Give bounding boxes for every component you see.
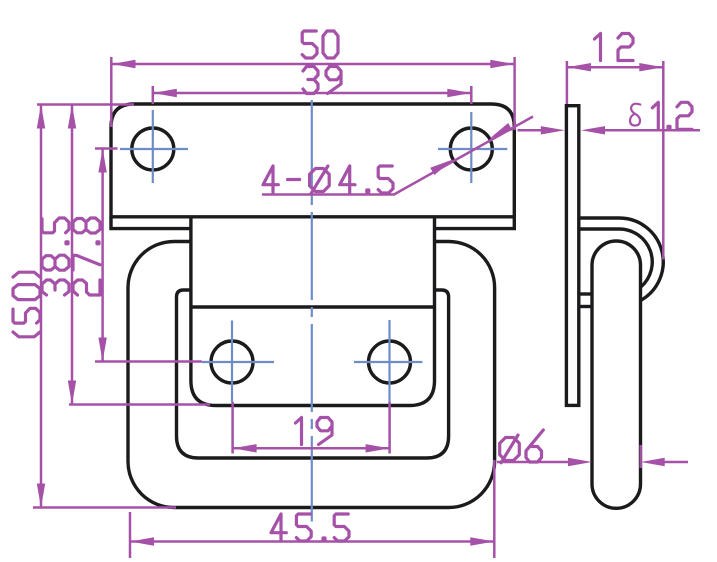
- dimension 19 arrows: [233, 444, 257, 452]
- wire diameter 6 text: [500, 430, 544, 463]
- mounting hole top-left: [132, 128, 174, 170]
- rivet hole bottom-right: [369, 341, 411, 383]
- left dimensions top extension line: [37, 103, 134, 106]
- dimension 19 line: [233, 402, 390, 454]
- wire diameter 6 lines: [497, 445, 688, 468]
- dimension 39 line: [153, 86, 472, 104]
- handle loop outer outline: [128, 242, 495, 508]
- dimension 45.5 text: [271, 514, 349, 541]
- center mark hole bottom-left: [202, 321, 274, 403]
- side view loop wire capsule: [592, 241, 641, 508]
- center mark hole top-right: [438, 112, 507, 183]
- dimension 38.5 line: [69, 105, 210, 405]
- thickness delta 1.2 text: [630, 102, 692, 129]
- dimension 12 text: [595, 34, 634, 61]
- dimension 12 line: [567, 61, 663, 260]
- dimension 27.8 text: [73, 218, 100, 295]
- dimension 12 arrows: [567, 63, 591, 71]
- handle loop inner outline: [177, 290, 449, 458]
- dimension (50) text: [13, 272, 40, 337]
- hinge leaf and rivet plate outline: [191, 217, 435, 406]
- dimension 50 text: [302, 31, 338, 58]
- side view mounting plate edge: [566, 106, 578, 406]
- wire diameter 6 arrows: [568, 458, 592, 466]
- hole callout underline and leader: [262, 117, 533, 195]
- dimension 38.5 arrows: [68, 105, 76, 129]
- hole callout 4-dia4.5 text: [263, 166, 393, 194]
- dimension 19 text: [296, 418, 333, 445]
- rivet hole bottom-left: [211, 341, 253, 383]
- dimension 50 arrows: [112, 60, 136, 68]
- dimension 50 line: [111, 57, 514, 130]
- side view strap inner edge: [580, 229, 652, 287]
- mounting hole top-right: [450, 128, 492, 170]
- center mark hole bottom-right: [354, 320, 422, 402]
- dimension 38.5 text: [42, 218, 69, 295]
- dimension 45.5 line: [130, 460, 494, 558]
- dimension 39 arrows: [153, 89, 177, 97]
- dimension 27.8 line: [95, 149, 202, 362]
- dimension 45.5 arrows: [130, 537, 154, 545]
- top mounting plate outline: [111, 104, 514, 217]
- side view leaf edge bottom line: [580, 305, 592, 308]
- side view leaf edge top line: [580, 292, 592, 295]
- mounting plate right lip: [435, 217, 515, 229]
- dimension 39 text: [303, 67, 341, 94]
- center mark hole top-left: [120, 110, 188, 183]
- side view strap outer edge: [580, 218, 663, 300]
- dimension (50) arrows: [37, 105, 45, 129]
- fold line of rivet plate: [191, 305, 435, 308]
- vertical center line: [311, 100, 313, 522]
- thickness delta 1.2 lines: [518, 129, 701, 132]
- mounting plate left lip: [111, 217, 191, 229]
- thickness delta 1.2 arrows: [541, 126, 565, 134]
- hole callout leader arrows: [430, 159, 453, 175]
- dimension (50) line: [33, 105, 176, 508]
- dimension 27.8 arrows: [98, 149, 106, 173]
